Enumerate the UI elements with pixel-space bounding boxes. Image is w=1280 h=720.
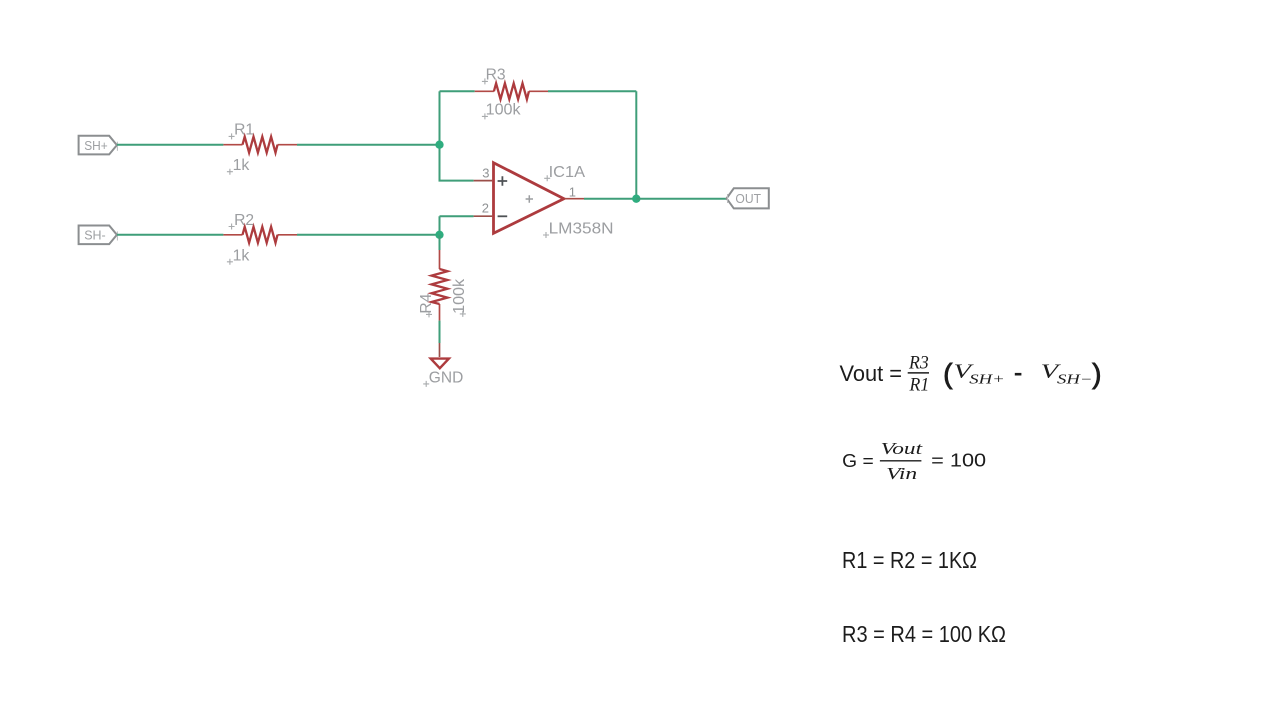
svg-text:SH-: SH- [84,229,106,243]
op-amp pin 3 line [474,180,493,182]
wire SH+ to R1 [117,144,223,146]
svg-text:SH+: SH+ [84,139,108,153]
svg-text:OUT: OUT [735,192,761,206]
op-amp U1 LM358N [474,163,614,238]
ground GND [423,343,463,387]
svg-text:R3: R3 [486,67,506,84]
svg-text:1: 1 [569,184,576,199]
wire feedback right vertical [635,91,637,198]
resistor R2 [223,212,297,265]
svg-text:R3 = R4 = 100 KΩ: R3 = R4 = 100 KΩ [842,621,1006,647]
svg-text:R1 = R2 = 1KΩ: R1 = R2 = 1KΩ [842,547,977,573]
svg-text:100k: 100k [451,278,468,314]
svg-text:R2: R2 [234,212,254,229]
op-amp triangle body [494,163,564,234]
svg-text:R3: R3 [908,354,929,374]
svg-text:R4: R4 [418,294,435,314]
svg-text:Vout: Vout [881,439,924,458]
svg-text:LM358N: LM358N [549,221,614,238]
wire node B up to pin 2 [440,216,474,235]
wire node B down to R4 [439,235,441,250]
op-amp center plus mark [526,195,533,202]
svg-text:): ) [1092,358,1101,389]
svg-text:1k: 1k [233,247,251,264]
wire op-amp output to node C [584,198,636,200]
wire feedback top left [440,90,475,92]
wire SH- to R2 [117,234,223,236]
svg-text:100k: 100k [486,102,522,119]
svg-text:1k: 1k [233,157,251,174]
svg-text:Vin: Vin [886,464,917,483]
wire R4 to ground [439,321,441,343]
op-amp output pin line [565,198,585,200]
resistor R1 [223,122,297,175]
resistor R3 [475,67,548,120]
svg-text:Vout =: Vout = [840,361,903,386]
formula Vout equation [840,354,1102,396]
op-amp pin 2 line [474,215,493,217]
svg-text:GND: GND [429,369,464,386]
wire R2 to node B [297,234,440,236]
wire node C to OUT [636,198,726,200]
svg-text:(: ( [943,358,952,389]
svg-text:= 100: = 100 [931,451,986,471]
svg-text:R1: R1 [234,122,254,139]
svg-text:2: 2 [482,201,489,216]
svg-text:3: 3 [482,165,489,180]
wire feedback top right [548,90,636,92]
svg-text:IC1A: IC1A [549,164,586,181]
wire R1 to node A [297,144,440,146]
resistor R4 [418,250,468,321]
svg-text:G =: G = [842,451,874,471]
svg-text:SH−: SH− [1057,371,1093,386]
connector flag OUT [727,188,769,208]
node A junction [435,141,443,149]
wire node A up to feedback [439,91,441,144]
connector flag SH+ [79,136,118,155]
formula gain equation [842,439,986,483]
svg-text:R1: R1 [909,376,930,396]
op-amp plus input mark [498,176,508,186]
op-amp minus input mark [498,215,508,217]
node C junction [632,195,640,203]
svg-text:SH+: SH+ [969,371,1005,386]
wire node A down to pin 3 [440,145,474,181]
connector flag SH- [79,226,118,245]
node B junction [435,231,443,239]
